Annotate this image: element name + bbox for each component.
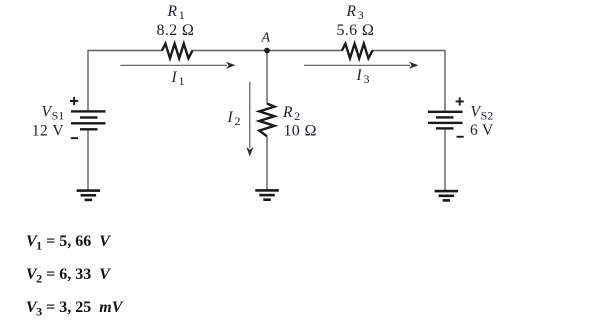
ground left <box>77 189 101 201</box>
label I2 <box>227 109 241 128</box>
label I1 <box>171 69 185 88</box>
value 6 V <box>470 122 494 139</box>
svg-text:V1 = 5, 66 V: V1 = 5, 66 V <box>26 233 111 253</box>
svg-text:8.2 Ω: 8.2 Ω <box>157 22 195 39</box>
label R1 <box>167 3 185 22</box>
wire top horizontal left segment (corner to R1) <box>88 50 163 52</box>
current arrow I1 <box>120 62 235 69</box>
svg-text:12 V: 12 V <box>32 123 65 140</box>
svg-text:6 V: 6 V <box>470 122 494 139</box>
equation V2 = 6,33 V <box>26 266 111 286</box>
svg-text:V3 = 3, 25 mV: V3 = 3, 25 mV <box>26 299 124 319</box>
ground right <box>435 190 459 202</box>
equation V3 = 3,25 mV <box>26 299 124 319</box>
value 5.6 ohm <box>337 22 375 39</box>
battery VS1 minus sign <box>71 137 78 139</box>
battery VS2 plate 4 short (-) <box>436 127 454 129</box>
wire top horizontal right segment (R3 to corner) <box>372 50 445 52</box>
svg-text:I3: I3 <box>356 67 370 86</box>
wire left vertical lower (battery VS1 - to ground) <box>87 129 89 190</box>
battery VS1 plate 3 long <box>71 122 106 124</box>
current arrow I3 <box>304 62 419 69</box>
value 8.2 ohm <box>157 22 195 39</box>
current arrow I2 <box>246 82 253 157</box>
battery VS1 plate 4 short (-) <box>80 128 98 130</box>
battery VS1 plus sign <box>70 97 78 105</box>
wire top horizontal middle segment (R1 to node A to R3) <box>192 50 343 52</box>
battery VS2 plate 3 long <box>428 122 463 124</box>
svg-text:I2: I2 <box>227 109 241 128</box>
resistor R1 <box>162 44 193 59</box>
svg-text:R1: R1 <box>167 3 185 22</box>
label I3 <box>356 67 370 86</box>
svg-text:5.6 Ω: 5.6 Ω <box>337 22 375 39</box>
svg-text:VS2: VS2 <box>471 104 494 123</box>
svg-text:A: A <box>261 31 271 46</box>
wire left vertical upper (top corner to battery VS1 +) <box>87 50 89 112</box>
battery VS1 plate 2 short <box>80 116 98 118</box>
ground middle <box>255 189 278 201</box>
svg-text:I1: I1 <box>171 69 185 88</box>
battery VS2 plate top long (+) <box>428 111 463 113</box>
svg-text:VS1: VS1 <box>42 104 65 123</box>
battery VS2 plus sign <box>456 97 464 105</box>
svg-text:10 Ω: 10 Ω <box>284 122 318 139</box>
label R2 <box>282 104 300 123</box>
value 12 V <box>32 123 65 140</box>
label VS2 <box>471 104 494 123</box>
battery VS2 minus sign <box>457 136 464 138</box>
battery VS1 plate top long (+) <box>71 110 106 112</box>
resistor R2 <box>259 104 274 137</box>
label R3 <box>346 3 364 22</box>
wire middle vertical upper (node A to R2) <box>266 51 268 104</box>
wire middle vertical lower (R2 to ground) <box>266 136 268 190</box>
equation V1 = 5,66 V <box>26 233 111 253</box>
node A <box>264 48 270 54</box>
value 10 ohm <box>284 122 318 139</box>
svg-text:R3: R3 <box>346 3 364 22</box>
label node A <box>261 31 271 46</box>
resistor R3 <box>342 44 373 59</box>
battery VS2 plate 2 short <box>436 116 454 118</box>
label VS1 <box>42 104 65 123</box>
svg-text:V2 = 6, 33 V: V2 = 6, 33 V <box>26 266 111 286</box>
wire right vertical upper (top corner to battery VS2 +) <box>444 50 446 112</box>
svg-text:R2: R2 <box>282 104 300 123</box>
wire right vertical lower (battery VS2 - to ground) <box>444 128 446 191</box>
